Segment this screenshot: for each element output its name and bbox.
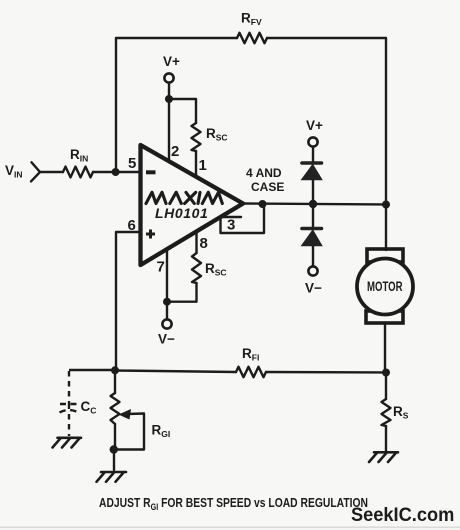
- svg-text:V−: V−: [305, 281, 322, 296]
- svg-text:LH0101: LH0101: [155, 205, 208, 221]
- svg-text:V+: V+: [163, 54, 180, 69]
- svg-text:6: 6: [128, 217, 136, 234]
- svg-text:V−: V−: [158, 332, 175, 347]
- svg-text:3: 3: [227, 217, 235, 234]
- svg-text:5: 5: [128, 155, 136, 172]
- svg-text:1: 1: [199, 157, 207, 174]
- svg-text:8: 8: [200, 235, 208, 252]
- svg-text:4 AND: 4 AND: [246, 166, 282, 180]
- svg-text:2: 2: [171, 143, 179, 160]
- svg-text:MOTOR: MOTOR: [367, 279, 403, 294]
- svg-text:CASE: CASE: [251, 180, 284, 194]
- svg-text:SeekIC.com: SeekIC.com: [351, 503, 454, 525]
- svg-text:7: 7: [157, 259, 165, 276]
- svg-text:V+: V+: [306, 118, 323, 133]
- svg-text:ADJUST RGI FOR BEST SPEED vs: ADJUST RGI FOR BEST SPEED vs LOAD REGULA…: [99, 496, 368, 512]
